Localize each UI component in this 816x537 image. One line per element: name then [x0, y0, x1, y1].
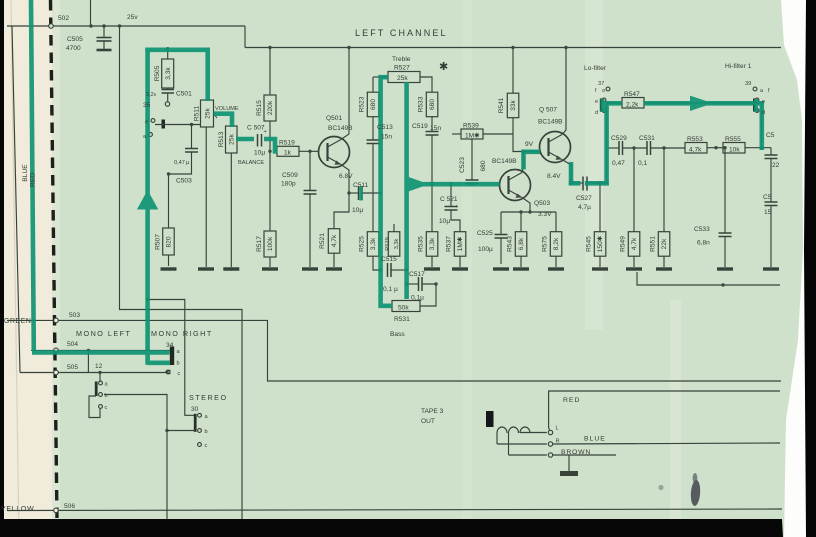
wire BLUE	[553, 443, 780, 444]
svg-text:BROWN: BROWN	[561, 449, 591, 456]
svg-text:c: c	[105, 405, 108, 411]
svg-text:Q 507: Q 507	[539, 107, 557, 114]
svg-text:R529: R529	[385, 237, 391, 250]
svg-text:d: d	[762, 110, 765, 116]
svg-text:100k: 100k	[267, 236, 274, 251]
green trace R547 to hi-filter with arrow	[644, 101, 762, 106]
svg-text:R513: R513	[218, 131, 225, 147]
capacitor C537	[765, 201, 778, 203]
svg-text:R541: R541	[498, 97, 505, 113]
wire hi-filter riser dark under green	[761, 103, 763, 148]
svg-text:R537: R537	[446, 236, 453, 252]
svg-text:C513: C513	[377, 124, 393, 131]
resistor R553	[685, 143, 707, 154]
potentiometer R531 bass	[392, 301, 420, 312]
node 506 terminal circle	[54, 508, 59, 513]
svg-text:22k: 22k	[661, 238, 668, 249]
wire input row to C503 and volume pot	[155, 124, 201, 126]
ground under C505	[97, 49, 112, 52]
wire routing line b from rail	[120, 26, 243, 519]
svg-text:4,7µ: 4,7µ	[578, 204, 591, 211]
green trace into R547	[601, 101, 623, 106]
svg-text:15n: 15n	[381, 134, 392, 141]
capacitor C515	[387, 263, 389, 277]
svg-text:R553: R553	[687, 136, 703, 143]
svg-text:37: 37	[598, 81, 604, 87]
wire to contact shield	[509, 454, 547, 456]
svg-text:MONO LEFT: MONO LEFT	[76, 329, 131, 338]
svg-text:d: d	[595, 110, 598, 116]
svg-text:3,3k: 3,3k	[429, 237, 436, 250]
paper fold line in cream strip	[11, 0, 19, 537]
wire treble right top	[420, 77, 432, 92]
svg-text:C509: C509	[282, 172, 298, 179]
green trace C527 to riser	[585, 181, 609, 186]
svg-text:0,47: 0,47	[612, 160, 625, 167]
wire top stub x90	[90, 0, 92, 26]
svg-text:R531: R531	[394, 316, 410, 323]
svg-text:R511: R511	[194, 106, 201, 122]
svg-text:680: 680	[480, 160, 487, 171]
green arrow right mid	[408, 177, 429, 192]
svg-text:R543: R543	[507, 236, 514, 252]
green trace treble left leg down to bass pot	[381, 75, 392, 306]
svg-text:MONO RIGHT: MONO RIGHT	[151, 329, 213, 338]
wire lower right return	[637, 272, 780, 285]
svg-text:C533: C533	[694, 226, 710, 233]
capacitor C527	[571, 182, 583, 184]
wire RED	[549, 391, 780, 431]
capacitor C507	[257, 134, 259, 147]
resistor R539	[452, 133, 461, 135]
transistor Q507	[540, 132, 571, 163]
resistor R545	[599, 183, 601, 232]
node 503 terminal circle	[54, 318, 59, 323]
svg-text:C527: C527	[576, 195, 592, 202]
svg-text:34: 34	[166, 342, 174, 349]
switch 37 contacts	[606, 87, 610, 91]
svg-text:C519: C519	[412, 123, 428, 130]
svg-text:25k: 25k	[397, 75, 408, 82]
capacitor C525	[500, 212, 502, 234]
green trace hook to mono-right b	[148, 360, 170, 365]
svg-text:c: c	[205, 443, 208, 449]
resistor R555	[723, 143, 745, 154]
node 502 terminal circle	[49, 24, 54, 29]
green trace switch39 hook	[754, 99, 758, 112]
wire 503 bus	[7, 320, 781, 381]
svg-text:R575: R575	[542, 236, 549, 252]
svg-text:C5: C5	[763, 194, 772, 201]
green trace treble wiper leg	[404, 82, 409, 299]
wire left margin vertical	[12, 26, 20, 373]
svg-text:VOLUME: VOLUME	[215, 106, 239, 112]
svg-text:C515: C515	[381, 256, 397, 263]
svg-text:Treble: Treble	[392, 56, 411, 63]
switch 30 contacts	[198, 413, 202, 417]
svg-text:8,2k: 8,2k	[553, 237, 560, 250]
wire mono-right feed from green node	[148, 300, 195, 416]
switch 35 input contacts	[165, 102, 169, 106]
svg-text:50k: 50k	[398, 305, 409, 312]
wire 504 bus	[31, 349, 172, 351]
svg-text:9V: 9V	[525, 141, 534, 148]
tape contact shield	[548, 453, 552, 457]
switch 39 contacts	[753, 87, 757, 91]
svg-text:33k: 33k	[510, 99, 517, 110]
capacitor C509	[309, 151, 311, 190]
wire LEFT CHANNEL supply rail	[245, 47, 781, 49]
svg-text:10µ: 10µ	[352, 207, 363, 214]
svg-text:6,8n: 6,8n	[697, 240, 710, 247]
wire 505 bus	[20, 372, 166, 374]
capacitor C521	[450, 184, 452, 206]
ink smudge	[690, 480, 701, 507]
capacitor C523	[471, 139, 473, 180]
svg-text:15n: 15n	[430, 125, 441, 132]
svg-text:R: R	[556, 439, 560, 445]
svg-text:BLUE: BLUE	[22, 164, 29, 182]
svg-text:3,3k: 3,3k	[165, 67, 172, 80]
svg-text:C 521: C 521	[440, 196, 458, 203]
resistor R529	[388, 232, 400, 257]
tape connector body	[486, 411, 494, 427]
svg-text:e: e	[595, 99, 598, 105]
fold light band in mint	[585, 0, 603, 330]
svg-text:GREEN: GREEN	[4, 318, 32, 325]
resistor R537	[454, 232, 466, 257]
wire to contact L	[520, 432, 547, 434]
green trace Q503 collector to Q507 base	[524, 152, 541, 170]
green trace feedback loop top	[145, 47, 210, 52]
ground tape shield	[560, 471, 578, 476]
capacitor C501	[167, 88, 169, 89]
left black column	[0, 0, 4, 537]
svg-text:25v: 25v	[127, 14, 138, 21]
svg-text:+: +	[455, 204, 458, 210]
resistor R543	[520, 212, 522, 232]
svg-text:0,47µ: 0,47µ	[174, 160, 190, 166]
green trace hi-filter riser down	[759, 101, 764, 150]
green trace volume to balance	[214, 114, 233, 127]
node 504 terminal circle	[54, 348, 59, 353]
svg-text:12: 12	[95, 363, 103, 370]
svg-text:35: 35	[143, 102, 151, 109]
svg-text:C517: C517	[409, 271, 425, 278]
svg-text:100µ: 100µ	[478, 246, 493, 253]
svg-text:c: c	[178, 371, 181, 377]
svg-text:39: 39	[745, 81, 751, 87]
svg-text:C501: C501	[176, 91, 192, 98]
svg-text:STEREO: STEREO	[189, 393, 228, 402]
resistor R547	[622, 98, 644, 109]
green trace main vertical with arrow	[145, 48, 150, 365]
svg-text:505: 505	[67, 364, 78, 371]
resistor R515	[269, 48, 271, 96]
green trace balance to C507	[236, 137, 254, 142]
green trace treble left top hook	[379, 75, 389, 80]
capacitor C513	[372, 117, 374, 140]
svg-text:R551: R551	[650, 236, 657, 252]
potentiometer R511 volume	[201, 100, 214, 127]
wire drop to LEFT CHANNEL rail	[244, 26, 246, 48]
svg-text:C531: C531	[639, 135, 655, 142]
capacitor C531	[646, 141, 648, 155]
resistor R541	[512, 48, 514, 94]
svg-text:2,2k: 2,2k	[626, 102, 639, 109]
svg-text:8.4V: 8.4V	[547, 173, 561, 180]
svg-text:Bass: Bass	[390, 331, 405, 338]
svg-text:R545: R545	[586, 236, 593, 252]
resistor R551	[663, 148, 665, 232]
green trace emitter to C527	[569, 181, 581, 186]
cream-mint boundary soft	[52, 0, 60, 537]
capacitor C503	[191, 125, 193, 149]
svg-text:6.8V: 6.8V	[339, 173, 353, 180]
svg-text:504: 504	[67, 341, 78, 348]
svg-text:C525: C525	[477, 230, 493, 237]
svg-text:R549: R549	[620, 236, 627, 252]
svg-text:150✱: 150✱	[596, 235, 604, 252]
svg-text:BLUE: BLUE	[584, 436, 606, 443]
svg-text:YELLOW: YELLOW	[1, 506, 34, 513]
wire switch12-b to stereo-b	[104, 395, 167, 520]
transistor Q503	[500, 170, 531, 201]
svg-text:15: 15	[764, 209, 772, 216]
svg-text:b: b	[177, 361, 180, 367]
tape contact R	[548, 442, 552, 446]
svg-text:4,7k: 4,7k	[631, 237, 638, 250]
green trace left margin vertical	[31, 0, 34, 351]
svg-text:220k: 220k	[267, 100, 274, 115]
wire BROWN	[553, 454, 616, 456]
svg-text:b: b	[205, 429, 208, 435]
svg-text:4,7k: 4,7k	[331, 234, 338, 247]
wire 504 to 505 link	[87, 350, 89, 372]
green trace into volume pot	[205, 48, 210, 102]
emitter bus Q503	[501, 211, 556, 213]
green trace wiper to Q503 base with arrow	[404, 182, 499, 187]
svg-text:10µ: 10µ	[254, 150, 265, 157]
green trace C507 to R519	[264, 139, 278, 151]
svg-text:680: 680	[370, 99, 377, 110]
svg-text:R533: R533	[418, 96, 425, 112]
resistor R575	[555, 212, 557, 232]
green trace lo-filter riser	[604, 104, 609, 186]
wire 506 bus	[7, 509, 782, 511]
svg-text:OUT: OUT	[421, 418, 435, 425]
svg-text:4,7k: 4,7k	[689, 147, 702, 154]
svg-text:C529: C529	[611, 135, 627, 142]
svg-text:1M✱: 1M✱	[465, 132, 480, 140]
bottom black bar	[0, 519, 783, 537]
svg-text:1k: 1k	[284, 150, 292, 157]
wire lo-filter riser	[607, 103, 622, 183]
svg-text:o: o	[602, 88, 605, 94]
wire treble left top	[373, 76, 388, 78]
right black column	[804, 0, 816, 537]
svg-text:BALANCE: BALANCE	[238, 160, 264, 166]
transistor Q501	[319, 137, 350, 168]
svg-text:C505: C505	[67, 36, 83, 43]
cream strip left	[3, 0, 52, 537]
svg-text:R535: R535	[418, 236, 425, 252]
svg-text:680: 680	[429, 99, 436, 110]
capacitor C517	[407, 283, 419, 285]
svg-text:+: +	[264, 129, 267, 135]
switch 12 contacts	[99, 381, 103, 385]
svg-text:R523: R523	[359, 96, 366, 112]
potentiometer R513 balance	[226, 126, 238, 153]
svg-text:R525: R525	[359, 236, 366, 252]
grounds row	[161, 267, 780, 270]
capacitor C519	[431, 117, 433, 131]
svg-text:Lo-filter: Lo-filter	[584, 65, 607, 72]
green trace switch37 hook	[601, 99, 605, 112]
resistor R505	[167, 49, 169, 60]
svg-text:R515: R515	[256, 100, 263, 116]
svg-text:0,1: 0,1	[638, 160, 647, 167]
svg-text:3.3V: 3.3V	[538, 211, 552, 218]
svg-text:b: b	[105, 393, 108, 399]
svg-text:503: 503	[69, 312, 80, 319]
resistor R523	[372, 77, 374, 92]
svg-text:10µ: 10µ	[439, 218, 450, 225]
svg-text:C 507: C 507	[247, 125, 265, 132]
svg-text:BC149B: BC149B	[328, 125, 353, 132]
svg-text:C511: C511	[353, 182, 369, 189]
svg-text:3,3k: 3,3k	[394, 239, 400, 250]
capacitor C529	[607, 147, 619, 149]
wire 505 to switch 12	[99, 373, 101, 383]
wire to contact R	[497, 443, 547, 445]
svg-text:R517: R517	[256, 236, 263, 252]
green trace C511 plates	[359, 187, 362, 201]
resistor R549	[633, 148, 635, 232]
resistor R521	[328, 229, 340, 254]
wire 25V rail top	[7, 25, 245, 27]
resistor R517	[264, 231, 276, 257]
svg-text:0,1µ: 0,1µ	[411, 295, 424, 302]
svg-text:25k: 25k	[229, 133, 236, 144]
svg-text:4700: 4700	[66, 45, 81, 52]
svg-text:L: L	[556, 426, 559, 432]
svg-text:180p: 180p	[281, 181, 296, 188]
green trace 504 run to mono-right a	[32, 350, 170, 355]
capacitor C533	[724, 148, 726, 233]
svg-text:BC149B: BC149B	[538, 119, 563, 126]
tape connector coils	[497, 427, 507, 433]
svg-text:R539: R539	[463, 123, 479, 130]
node 505 terminal circle	[54, 370, 59, 375]
svg-text:C503: C503	[176, 178, 192, 185]
svg-text:BC149B: BC149B	[492, 158, 517, 165]
svg-text:RED: RED	[563, 397, 580, 404]
svg-text:R519: R519	[279, 140, 295, 147]
svg-text:820: 820	[166, 236, 173, 247]
capacitor C505	[103, 26, 105, 37]
svg-text:C5: C5	[766, 132, 775, 139]
potentiometer R527 treble	[388, 72, 420, 83]
svg-text:C523: C523	[459, 157, 466, 173]
capacitor C535	[770, 148, 772, 155]
svg-text:e: e	[762, 99, 765, 105]
svg-text:30: 30	[191, 406, 199, 413]
svg-text:R505: R505	[154, 65, 161, 81]
svg-text:0,1 µ: 0,1 µ	[383, 286, 398, 293]
resistor R533	[426, 92, 438, 117]
resistor R525	[372, 193, 374, 232]
resistor R535	[431, 184, 433, 232]
svg-text:R521: R521	[319, 233, 326, 249]
capacitor C511	[349, 192, 359, 194]
svg-text:Q501: Q501	[326, 115, 342, 122]
svg-text:LEFT CHANNEL: LEFT CHANNEL	[355, 28, 448, 38]
svg-text:✱: ✱	[439, 61, 448, 73]
svg-text:R507: R507	[155, 234, 162, 250]
svg-text:R527: R527	[394, 65, 410, 72]
svg-text:3,3k: 3,3k	[370, 237, 377, 250]
switch 34 contacts	[170, 347, 174, 366]
dashed margin line	[51, 0, 58, 519]
svg-text:506: 506	[64, 503, 75, 510]
svg-text:1M✱: 1M✱	[456, 236, 464, 251]
svg-text:10k: 10k	[729, 147, 740, 154]
svg-text:TAPE 3: TAPE 3	[421, 408, 444, 415]
svg-text:22: 22	[772, 162, 780, 169]
svg-text:25k: 25k	[205, 107, 212, 118]
tape contact L	[548, 430, 552, 434]
svg-text:RED: RED	[30, 173, 37, 187]
svg-text:e: e	[145, 120, 148, 126]
svg-text:R555: R555	[725, 136, 741, 143]
resistor R507	[163, 228, 175, 255]
green trace Q507 emitter down	[569, 162, 574, 185]
svg-text:502: 502	[58, 15, 69, 22]
resistor R519	[277, 146, 299, 156]
green arrow up	[137, 190, 158, 210]
svg-text:Q503: Q503	[534, 200, 550, 207]
green arrow right lofilter	[690, 96, 713, 111]
svg-text:6,8k: 6,8k	[518, 237, 525, 250]
svg-text:Hi-filter 1: Hi-filter 1	[725, 63, 752, 70]
svg-text:R547: R547	[624, 91, 640, 98]
